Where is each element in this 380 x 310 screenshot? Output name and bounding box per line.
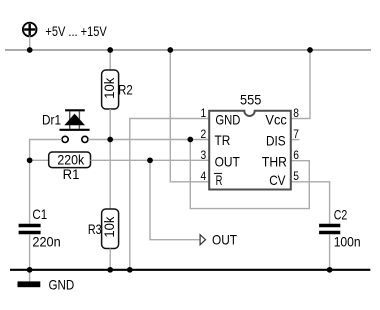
svg-text:GND: GND (49, 276, 75, 292)
wire Vcc net: rail down into pin 8 (291, 50, 310, 119)
node junction button / R2-R3 (107, 137, 113, 143)
pin label OUT (215, 153, 241, 169)
wire TR tap down, across, up into THR pin 6 (190, 140, 309, 209)
svg-text:10k: 10k (101, 216, 117, 238)
node junction rail / Vcc wire (307, 47, 313, 53)
power symbol +V (23, 23, 37, 37)
node junction left net / R1 (27, 157, 33, 163)
reference label Dr1 (42, 111, 61, 127)
svg-text:555: 555 (240, 92, 261, 108)
reference label R1 (63, 166, 80, 182)
value label 100n (334, 234, 361, 250)
wire C2 bottom to ground rail (329, 234, 331, 270)
port arrow OUT (200, 235, 205, 245)
node junction ground / R3 (107, 267, 113, 273)
node junction ground / C1 (27, 267, 33, 273)
svg-text:C2: C2 (334, 206, 348, 222)
node junction rail / reset wire (167, 47, 173, 53)
svg-text:R1: R1 (63, 166, 80, 182)
svg-text:+5V ... +15V: +5V ... +15V (45, 23, 107, 39)
pushbutton Dr1 (60, 110, 90, 142)
svg-text:GND: GND (215, 111, 240, 127)
wire CV pin 5 to C2 (291, 182, 330, 224)
wire rail to R2 top (109, 50, 111, 70)
net label GND (49, 276, 75, 292)
wire bottom ground rail (10, 269, 370, 271)
net label OUT (212, 232, 237, 248)
pin 3 number (201, 150, 207, 162)
svg-text:CV: CV (269, 172, 286, 188)
node junction ground / C2 (327, 267, 333, 273)
svg-text:R2: R2 (118, 82, 133, 98)
svg-text:Vcc: Vcc (265, 111, 286, 127)
svg-text:Dr1: Dr1 (42, 111, 61, 127)
pin label THR (262, 153, 287, 169)
pin 7 number (293, 129, 299, 141)
svg-text:OUT: OUT (212, 232, 237, 248)
resistor R1 (49, 152, 91, 168)
svg-text:OUT: OUT (215, 153, 241, 169)
wire top supply rail (5, 49, 371, 51)
svg-text:R3: R3 (88, 221, 102, 237)
wire C1 bottom to ground rail (29, 234, 31, 270)
svg-text:10k: 10k (101, 77, 117, 99)
resistor R2 (102, 70, 119, 109)
node junction TR / THR tap (187, 137, 193, 143)
op-amp 555 IC body U1 (209, 111, 291, 190)
capacitor C1 (19, 226, 41, 233)
pin 1 number (201, 108, 207, 120)
reference label R3 (88, 221, 102, 237)
svg-text:100n: 100n (334, 234, 361, 250)
reference label R2 (118, 82, 133, 98)
pin 4 number (201, 171, 207, 183)
wire left vertical net (button to R1 to C1) (30, 140, 62, 224)
capacitor C2 (319, 226, 340, 233)
svg-text:7: 7 (293, 129, 299, 141)
svg-text:C1: C1 (32, 206, 47, 222)
value label 10k (R2) (101, 77, 117, 99)
value label 220n (32, 234, 60, 250)
wire GND pin 1 to ground rail (130, 119, 209, 270)
part label 555 (240, 92, 261, 108)
svg-text:2: 2 (201, 129, 207, 141)
pin label GND (215, 111, 240, 127)
svg-text:TR: TR (215, 132, 231, 148)
svg-text:8: 8 (293, 108, 299, 120)
reference label C1 (32, 206, 47, 222)
pin 6 number (293, 150, 299, 162)
pin 5 number (293, 171, 299, 183)
wire reset net: rail down and into pin 4 (170, 50, 209, 182)
node junction rail / power (27, 47, 33, 53)
svg-text:6: 6 (293, 150, 299, 162)
value label +5V ... +15V (45, 23, 107, 39)
wire OUT tap down and right to arrow (150, 160, 200, 239)
wire R1 left lead (30, 159, 49, 161)
wire power symbol to rail (29, 36, 31, 50)
value label 10k (R3) (101, 216, 117, 238)
pin label TR (215, 132, 231, 148)
svg-text:THR: THR (262, 153, 287, 169)
node junction rail / R2 (107, 47, 113, 53)
pin label CV (269, 172, 286, 188)
pin 2 number (201, 129, 207, 141)
svg-text:R: R (216, 172, 223, 188)
svg-text:220n: 220n (32, 234, 60, 250)
pin 8 number (293, 108, 299, 120)
svg-text:4: 4 (201, 171, 207, 183)
wire R2 bottom to R3 top (109, 109, 111, 209)
node junction ground / GND pin wire (127, 267, 133, 273)
wire DIS pin 7 stub (291, 139, 300, 141)
value label 220k (57, 152, 85, 168)
svg-text:1: 1 (201, 108, 207, 120)
svg-text:5: 5 (293, 171, 299, 183)
svg-text:DIS: DIS (266, 132, 286, 148)
node junction OUT tap (147, 157, 153, 163)
pin label R-bar (214, 172, 223, 188)
wire button right contact to TR pin 2 (88, 139, 209, 141)
pin label DIS (266, 132, 286, 148)
wire R3 bottom to ground rail (109, 249, 111, 270)
pin label Vcc (265, 111, 286, 127)
wire R1 right lead to OUT pin 3 (91, 159, 210, 161)
resistor R3 (102, 209, 119, 249)
svg-text:3: 3 (201, 150, 207, 162)
ground symbol (18, 270, 41, 287)
reference label C2 (334, 206, 348, 222)
